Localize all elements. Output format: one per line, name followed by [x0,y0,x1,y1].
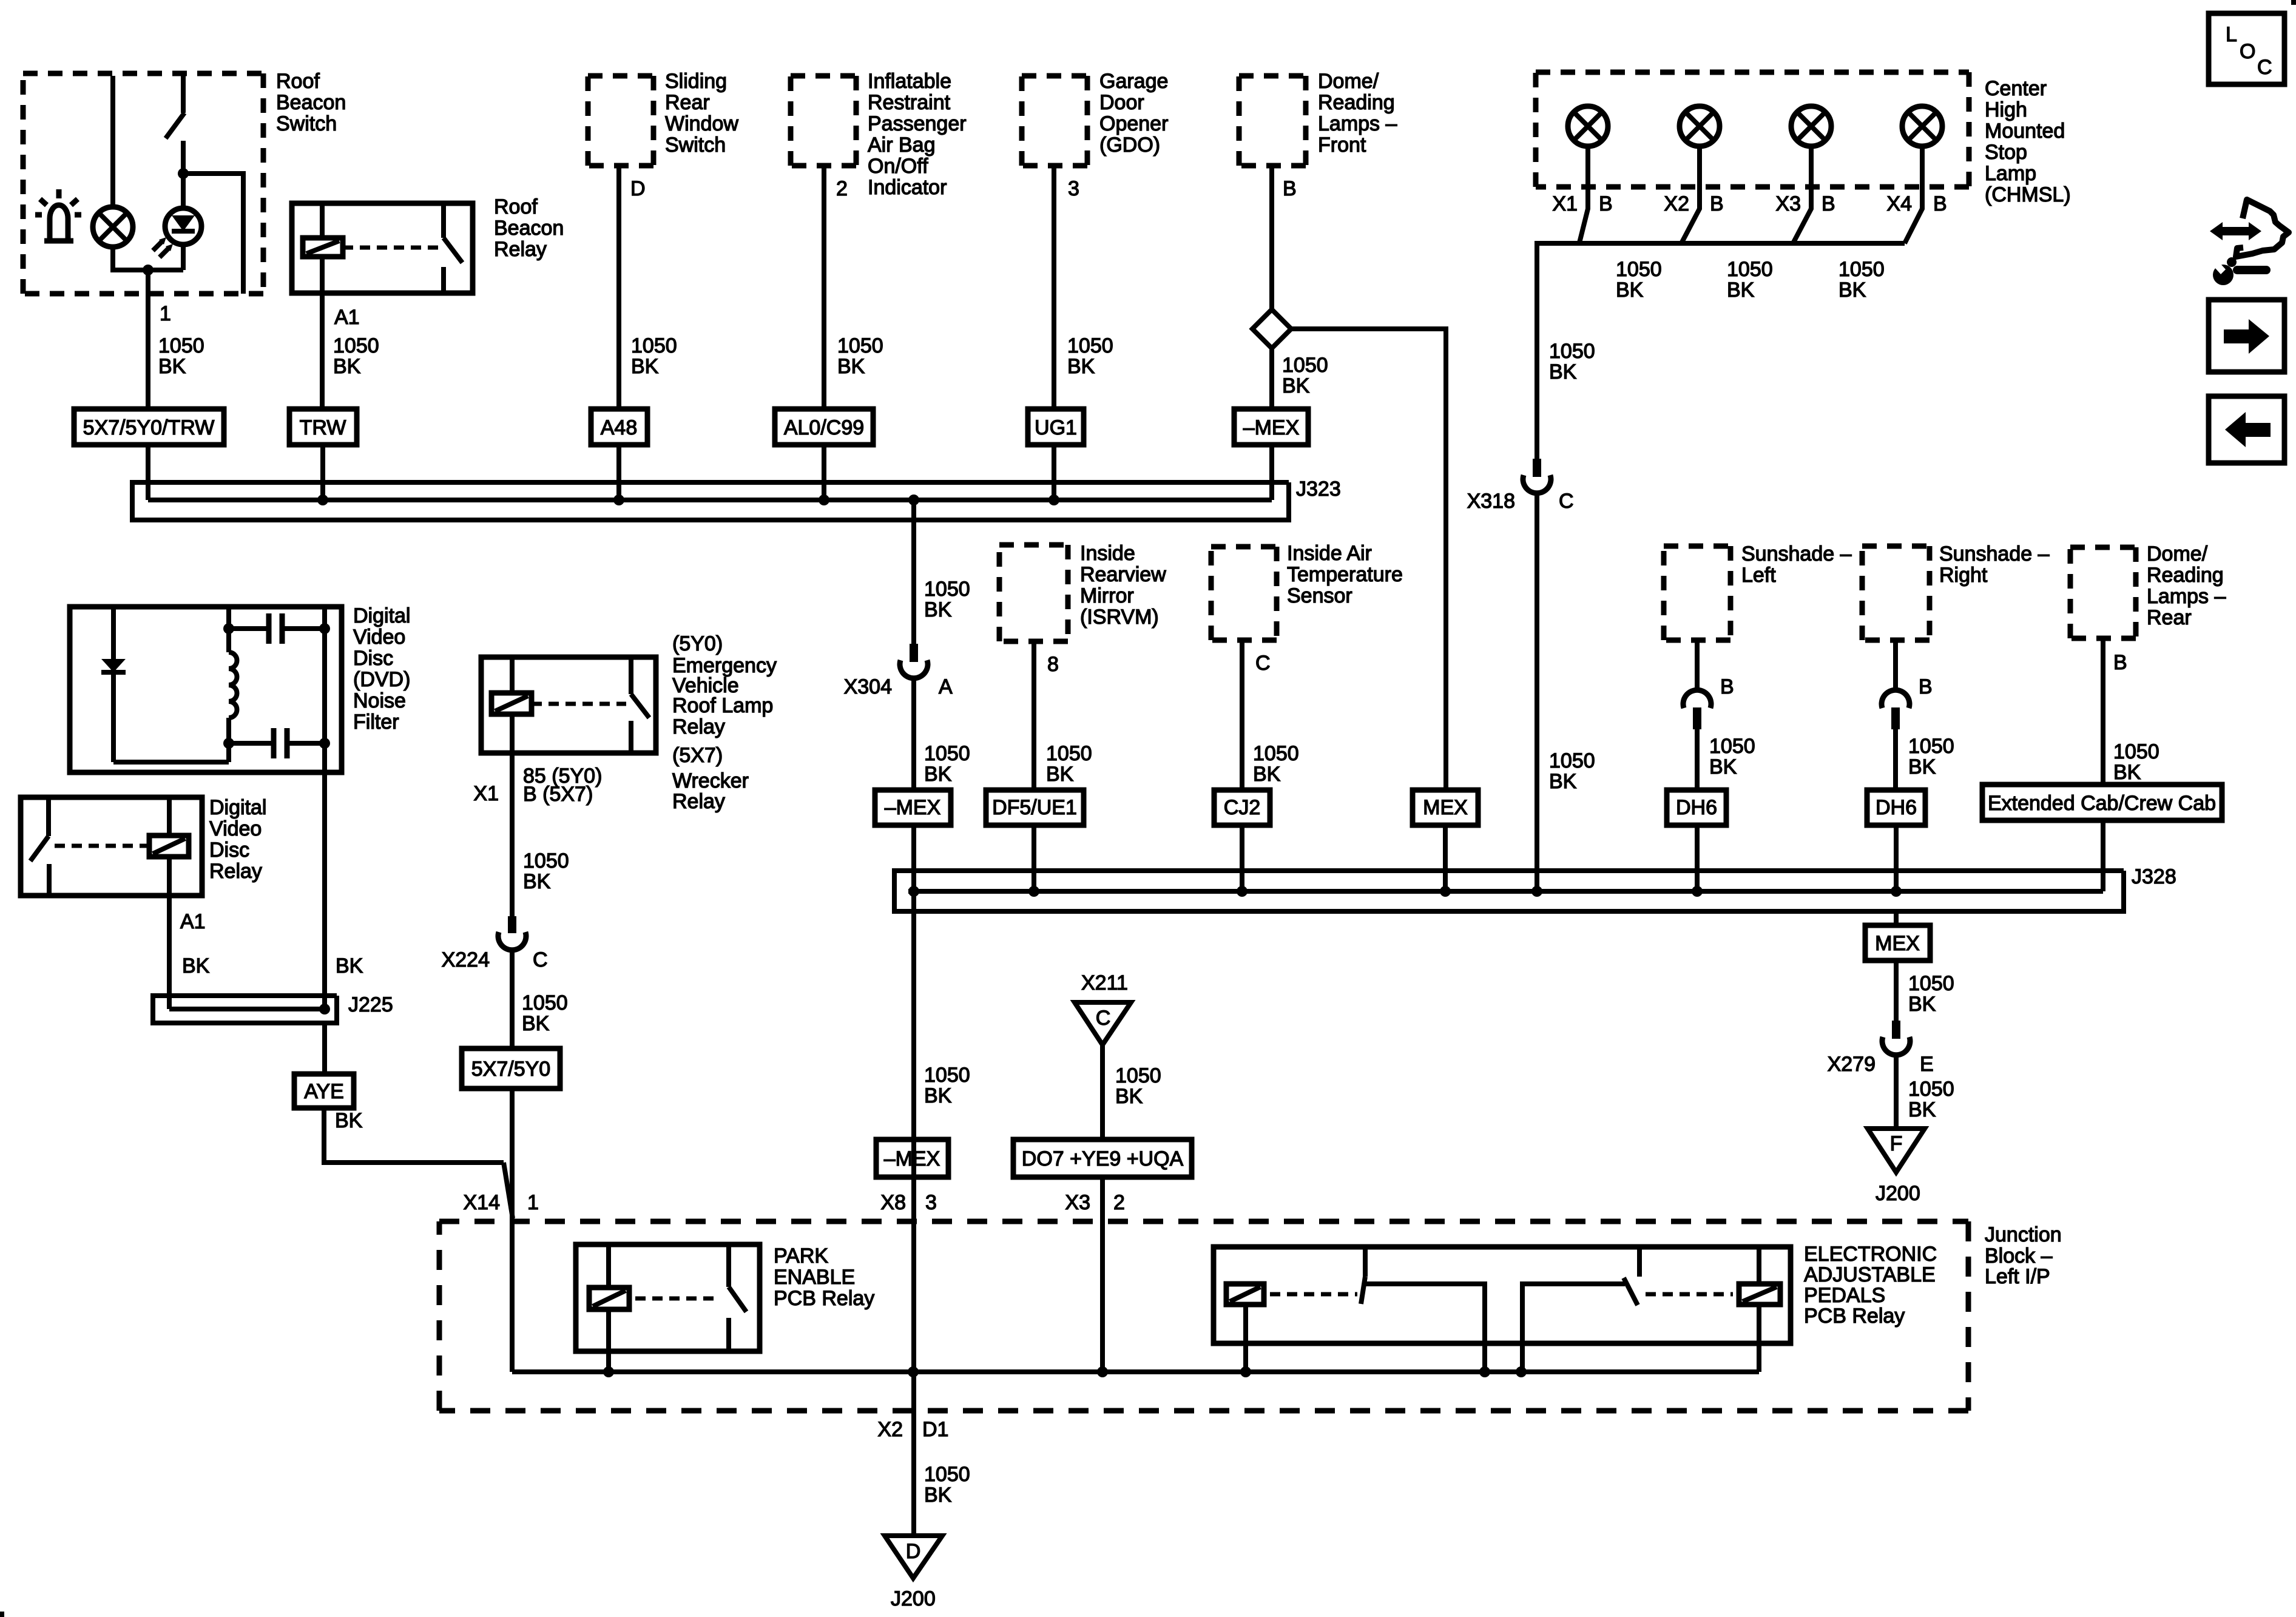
wire X304 to -MEX [911,679,916,790]
svg-text:J225: J225 [348,993,393,1016]
svg-text:1050: 1050 [522,991,568,1014]
wire to bus [146,445,150,500]
label box A48 [591,409,647,445]
switch blade [631,694,649,718]
lamp X3 [1791,106,1831,146]
relay switch lower contact [441,267,446,293]
ground symbol J200 F [1868,1129,1925,1172]
svg-text:BK: BK [1908,993,1936,1016]
relay dashes 2 [1646,1292,1733,1297]
coil bottom lead / wire X1 [510,714,515,916]
svg-text:5X7/5Y0/TRW: 5X7/5Y0/TRW [83,416,215,439]
wire pin 8 [1032,641,1036,790]
svg-text:B: B [1933,192,1947,215]
switch upper contact [181,76,186,113]
svg-text:C: C [2257,56,2272,79]
svg-text:O: O [2240,40,2255,63]
wire bus to AYE [322,1023,327,1074]
sunshade right dashed box [1862,546,1930,640]
coil bottom lead / wire A1 [167,857,172,1009]
svg-text:BK: BK [335,1109,363,1132]
switch lower contact [629,721,633,753]
node X304 branch [908,495,919,505]
relay dashes [343,246,441,250]
node X3 [1097,1366,1108,1377]
svg-text:PCB Relay: PCB Relay [1804,1305,1905,1328]
wire to bus [1269,445,1274,500]
label box UG1 [1028,409,1084,445]
svg-text:X3: X3 [1065,1191,1090,1214]
svg-text:X2: X2 [1664,192,1689,215]
wire lamp bottom [113,247,183,270]
svg-text:Rear: Rear [665,91,710,114]
svg-text:1050: 1050 [1908,1078,1954,1101]
coil bottom lead to bus [606,1309,611,1372]
label box Extended Cab/Crew Cab [1982,785,2222,820]
diode branch wire [111,607,116,762]
wire MEX to X279 [1894,960,1899,1021]
switch blade [30,836,49,861]
inner bottom wire [113,760,229,765]
wire below diamond [1269,348,1274,409]
svg-text:Dome/: Dome/ [2147,542,2208,565]
node inductor bottom [223,738,234,749]
bus J323 outline [132,482,1289,520]
svg-text:BK: BK [1282,374,1310,397]
svg-text:A48: A48 [601,416,638,439]
svg-text:1050: 1050 [1549,340,1595,363]
coil top lead [167,797,172,836]
svg-text:C: C [1096,1007,1111,1030]
svg-text:D: D [906,1540,921,1563]
svg-text:F: F [1890,1132,1903,1155]
wire MEX to bus [1443,825,1448,891]
coil top lead [510,657,515,693]
switch contact [46,797,51,836]
svg-text:1050: 1050 [924,1064,970,1087]
svg-text:1050: 1050 [1067,334,1113,357]
label box 5X7/5Y0/TRW [74,409,224,445]
coil 1 lead to bus [1243,1305,1248,1372]
coil 2 bottom lead to bus [1757,1305,1761,1372]
svg-text:B (5X7): B (5X7) [523,783,593,806]
svg-text:1050: 1050 [1616,258,1662,281]
svg-text:BK: BK [1549,360,1577,383]
wire 5X7/5Y0 to junction block bus [510,1089,515,1372]
beacon icon dome [50,205,68,242]
node pin1 junction [143,265,154,275]
svg-text:Sliding: Sliding [665,70,727,93]
svg-text:DF5/UE1: DF5/UE1 [992,796,1077,819]
wire pin B [1893,640,1898,691]
svg-text:ENABLE: ENABLE [774,1266,855,1289]
svg-text:CJ2: CJ2 [1224,796,1260,819]
wire to bus [2101,820,2105,891]
wire switch to LED [181,174,186,208]
svg-text:Reading: Reading [2147,564,2224,587]
svg-text:C: C [1559,490,1574,513]
svg-text:AL0/C99: AL0/C99 [784,416,864,439]
lamp X1 [1568,106,1608,146]
svg-text:J323: J323 [1296,478,1341,501]
switch lower contact [181,141,186,174]
svg-text:X2: X2 [877,1418,903,1441]
ground symbol J200 D [885,1536,942,1578]
relay coil [491,693,532,714]
svg-text:BK: BK [924,598,952,621]
splice diamond [1252,309,1291,348]
node park coil [603,1366,614,1377]
svg-text:BK: BK [336,954,363,977]
svg-text:Rear: Rear [2147,606,2192,629]
svg-text:(ISRVM): (ISRVM) [1080,606,1159,629]
svg-text:MEX: MEX [1875,932,1920,955]
node UG1 [1048,495,1059,505]
svg-text:1050: 1050 [1908,735,1954,758]
svg-text:–MEX: –MEX [1243,416,1300,439]
beacon icon rays [56,189,62,198]
wire J323 to X304 [911,500,916,644]
svg-text:A1: A1 [334,306,360,329]
svg-text:BK: BK [158,355,186,378]
wire -MEX through J328 down to junction block bus [911,825,916,1372]
connector X279 [1892,1021,1900,1039]
svg-text:B: B [1283,177,1297,200]
svg-text:B: B [1720,675,1734,698]
svg-text:TRW: TRW [300,416,346,439]
wire to bus [822,445,826,500]
svg-text:BK: BK [1253,763,1281,786]
svg-text:BK: BK [333,355,361,378]
dome reading lamps front dashed box [1239,76,1306,166]
svg-text:Sensor: Sensor [1287,584,1352,607]
wire X224 to 5X7/5Y0 [510,951,515,1048]
relay dashes [55,844,147,848]
bus J328 outline [894,871,2124,911]
svg-text:BK: BK [1549,770,1577,793]
wire to bus [1032,825,1036,891]
switch blade [166,113,184,138]
svg-text:Relay: Relay [494,238,547,261]
svg-text:Passenger: Passenger [868,112,967,135]
node X8 [908,1366,919,1377]
svg-text:1050: 1050 [1709,735,1755,758]
svg-text:X8: X8 [880,1191,906,1214]
svg-text:1050: 1050 [1727,258,1773,281]
page corner mark top right [2291,0,2296,5]
svg-text:1050: 1050 [1838,258,1885,281]
svg-text:BK: BK [1838,279,1866,302]
svg-text:X3: X3 [1775,192,1801,215]
svg-text:X279: X279 [1828,1053,1876,1076]
bus J225 conductor [169,1007,325,1011]
relay dashes 1 [1270,1292,1357,1297]
node pedals switch 1 [1479,1366,1490,1377]
lamp wires with pin slants [1579,146,1588,243]
vehicle service icon: wrench [2213,265,2234,285]
svg-text:(DVD): (DVD) [353,668,410,691]
wire pin D [616,166,621,409]
bottom capacitor [231,741,271,746]
svg-text:Wrecker: Wrecker [672,769,749,792]
svg-text:Air Bag: Air Bag [868,133,936,157]
wire AYE down and right to X14 [324,1108,504,1163]
node X318 [1531,886,1542,897]
svg-text:2: 2 [1113,1191,1125,1214]
svg-text:Roof: Roof [494,195,538,218]
svg-text:D1: D1 [922,1418,948,1441]
relay coil 1 [1226,1284,1264,1305]
svg-text:X4: X4 [1886,192,1912,215]
connector (inline, cap over pin) [1882,690,1909,708]
lamp X2 [1680,106,1720,146]
inflatable restraint indicator dashed box [791,76,856,166]
svg-text:(5X7): (5X7) [672,744,723,767]
wire bus to J200 D [911,1372,916,1536]
svg-text:Digital: Digital [353,604,410,627]
page corner mark bottom left [0,1612,4,1617]
svg-text:Window: Window [665,112,738,135]
inside air temperature sensor dashed box [1211,547,1277,640]
svg-text:Lamps –: Lamps – [1318,112,1397,135]
top capacitor [231,626,266,631]
inductor branch [226,607,231,652]
svg-text:Right: Right [1939,564,1988,587]
junction block internal ground bus [512,1369,1759,1374]
switch 2 contact [1637,1247,1642,1277]
svg-text:1050: 1050 [924,1463,970,1486]
node DH6 right / MEX lower [1891,886,1902,897]
svg-text:Sunshade –: Sunshade – [1741,542,1852,565]
roof beacon switch dashed box [23,73,263,294]
svg-text:UG1: UG1 [1035,416,1077,439]
svg-text:DH6: DH6 [1676,796,1717,819]
wire pin B [2101,638,2105,785]
svg-text:1050: 1050 [1253,742,1299,765]
lamp X4 [1902,106,1942,146]
svg-text:(5Y0): (5Y0) [672,632,723,655]
emergency vehicle roof lamp relay box [481,657,656,753]
wire LED bottom [181,245,186,270]
svg-text:Disc: Disc [209,839,249,862]
svg-text:BK: BK [1616,279,1644,302]
label box DO7 +YE9 +UQA [1013,1139,1192,1177]
node DH6 left [1692,886,1703,897]
svg-text:PARK: PARK [774,1244,828,1268]
switch contact [726,1244,731,1287]
svg-text:Sunshade –: Sunshade – [1939,542,2050,565]
svg-text:DH6: DH6 [1876,796,1917,819]
coil bottom lead / wire A1 [320,257,325,409]
relay dashes [532,702,626,706]
svg-text:Temperature: Temperature [1287,563,1403,586]
svg-text:1050: 1050 [158,334,204,357]
node BK wire [319,1004,330,1014]
svg-text:Beacon: Beacon [276,91,346,114]
connector X224 [508,916,516,933]
node DF5/UE1 [1028,886,1039,897]
svg-text:Left: Left [1741,564,1776,587]
svg-text:5X7/5Y0: 5X7/5Y0 [471,1058,550,1081]
label box AL0/C99 [775,409,873,445]
svg-text:AYE: AYE [304,1080,344,1103]
svg-text:B: B [1710,192,1724,215]
svg-text:Disc: Disc [353,647,393,670]
svg-text:1050: 1050 [631,334,677,357]
relay coil [589,1288,629,1309]
svg-text:High: High [1985,98,2027,121]
node TRW [317,495,328,505]
svg-text:Lamp: Lamp [1985,162,2036,185]
switch contact [629,657,633,694]
svg-text:1: 1 [527,1191,539,1214]
svg-text:X304: X304 [844,675,892,698]
svg-text:Stop: Stop [1985,141,2027,164]
svg-text:A1: A1 [180,910,206,933]
svg-text:Roof: Roof [276,70,320,93]
sunshade left dashed box [1664,546,1730,640]
svg-text:J200: J200 [1876,1182,1920,1205]
dome reading lamps rear dashed box [2070,547,2136,638]
wire to bus [1240,825,1244,891]
node -MEX [908,886,919,897]
svg-text:B: B [1919,675,1933,698]
label box MEX (mid) [1413,790,1478,825]
label box -MEX [875,790,951,825]
svg-text:BK: BK [1709,755,1737,778]
svg-text:Indicator: Indicator [868,176,947,199]
label box CJ2 [1214,790,1270,825]
svg-text:DO7 +YE9 +UQA: DO7 +YE9 +UQA [1022,1147,1184,1170]
svg-text:BK: BK [1067,355,1095,378]
wire pin 3 [1052,166,1056,409]
svg-text:Digital: Digital [209,796,266,819]
label box DH6 [1867,790,1925,825]
svg-text:Beacon: Beacon [494,217,564,240]
svg-text:BK: BK [522,1012,550,1035]
svg-text:1050: 1050 [837,334,883,357]
svg-text:BK: BK [2113,761,2141,784]
wire to bus [1695,825,1700,891]
node pedals coil 1 [1240,1366,1251,1377]
svg-text:B: B [2113,651,2127,674]
svg-text:Left I/P: Left I/P [1985,1265,2050,1288]
svg-text:1050: 1050 [924,742,970,765]
node inductor top [223,623,234,634]
svg-text:C: C [1255,652,1271,675]
wire DO7 to junction block bus [1100,1177,1105,1372]
svg-text:J328: J328 [2132,865,2176,888]
relay coil 2 [1739,1284,1780,1305]
svg-text:J200: J200 [891,1587,936,1610]
svg-text:Inside Air: Inside Air [1287,542,1372,565]
label box AYE [294,1074,354,1108]
svg-text:BK: BK [1046,763,1074,786]
svg-text:ADJUSTABLE: ADJUSTABLE [1804,1263,1936,1286]
relay dashes [635,1297,719,1301]
svg-text:BK: BK [1727,279,1755,302]
label box -MEX [1234,409,1308,445]
inner right vertical / BK wire down to J225 [322,607,327,1009]
svg-text:BK: BK [631,355,659,378]
wire pin C [1240,640,1244,790]
node top cap right [319,623,330,634]
wire to bus [1052,445,1056,500]
svg-text:B: B [1599,192,1613,215]
svg-text:Garage: Garage [1099,70,1168,93]
svg-text:X1: X1 [1552,192,1578,215]
bus J328 conductor [908,889,2103,894]
svg-text:L: L [2226,23,2237,46]
diode [101,659,126,672]
svg-text:A: A [939,675,953,698]
svg-text:PEDALS: PEDALS [1804,1284,1885,1307]
svg-text:Extended Cab/Crew Cab: Extended Cab/Crew Cab [1988,792,2216,815]
svg-text:Lamps –: Lamps – [2147,585,2226,608]
connector (inline, cap over pin) [1683,690,1711,708]
LOC box [2209,13,2284,84]
svg-text:(CHMSL): (CHMSL) [1985,183,2071,206]
svg-text:1050: 1050 [523,849,569,873]
svg-text:1050: 1050 [333,334,379,357]
bus J225 outline [153,996,337,1023]
svg-text:BK: BK [924,1484,952,1507]
svg-text:BK: BK [1115,1085,1143,1108]
svg-text:X211: X211 [1081,971,1128,994]
svg-text:Switch: Switch [276,112,337,135]
svg-text:Front: Front [1318,133,1366,157]
svg-text:ELECTRONIC: ELECTRONIC [1804,1243,1937,1266]
wire diamond branch to MEX [1291,329,1446,790]
svg-text:1050: 1050 [1046,742,1092,765]
pedals relay box [1214,1247,1791,1343]
sliding rear window switch dashed box [588,76,653,166]
svg-text:3: 3 [925,1191,937,1214]
svg-text:X14: X14 [464,1191,501,1214]
svg-text:Relay: Relay [672,790,725,813]
DVD relay box [21,797,202,896]
park enable relay box [576,1244,760,1351]
switch lower contact [726,1318,731,1351]
svg-text:X224: X224 [442,948,490,971]
LED symbol [165,208,201,245]
node pedals switch 2 [1516,1366,1527,1377]
svg-text:BK: BK [924,1084,952,1107]
wire to DH6 [1893,729,1898,790]
svg-text:X318: X318 [1467,490,1515,513]
svg-text:Rearview: Rearview [1080,563,1166,586]
svg-text:Video: Video [353,626,405,649]
switch blade [729,1287,746,1312]
svg-text:1050: 1050 [924,578,970,601]
svg-text:BK: BK [1908,1098,1936,1121]
svg-text:BK: BK [182,954,210,977]
node AL0 [819,495,829,505]
svg-text:BK: BK [837,355,865,378]
node switch branch [178,168,189,179]
node bottom cap right [319,738,330,749]
switch 2 blade [1624,1278,1638,1305]
svg-text:X1: X1 [473,782,499,805]
svg-text:Video: Video [209,817,262,840]
coil 2 top lead [1757,1247,1761,1284]
svg-text:–MEX: –MEX [884,1147,940,1170]
junction block dashed box [439,1221,1968,1411]
wire branch right [183,174,243,294]
wire to DH6 [1695,729,1700,790]
svg-text:1050: 1050 [1282,354,1328,377]
svg-text:PCB Relay: PCB Relay [774,1287,874,1310]
